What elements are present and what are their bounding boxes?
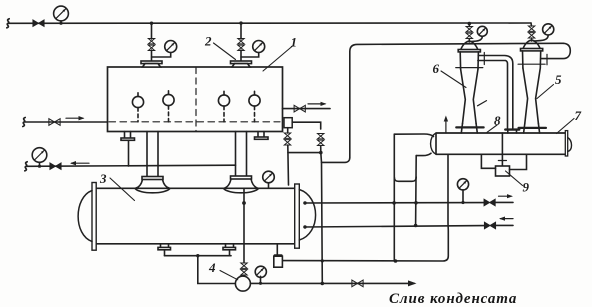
apparatus body 1 xyxy=(108,67,283,132)
wire: vent line with valve y=109 xyxy=(283,108,331,110)
wire: elbow x=448 cyl7 drain down to line C xyxy=(283,154,449,261)
ejector 6 body top section xyxy=(460,52,478,69)
wire: vertical Va x=394.3 from cyl7 inlet down to line C xyxy=(393,134,395,261)
wire: drop to valve ej6 xyxy=(468,24,470,27)
open valve on condensate line xyxy=(352,280,363,287)
flow arrow left above line B tail xyxy=(499,217,513,221)
bell right downcomer xyxy=(224,179,259,193)
wire: ejector suction line y=44 with elbow down xyxy=(350,43,564,157)
cap flange bar ej5 xyxy=(521,49,543,51)
dashed divider inside tank xyxy=(195,68,197,132)
valve above pump xyxy=(241,263,247,275)
wire: valve to flange xyxy=(151,50,153,61)
cylinder 3 body xyxy=(96,188,295,244)
wire: bridge y=181 xyxy=(394,177,416,181)
vent arrow up on cylinder 7 xyxy=(444,116,448,134)
gauge ej5 xyxy=(534,24,554,41)
pipe left downcomer xyxy=(147,132,158,177)
burner circle c xyxy=(218,91,229,122)
left dished head cylinder 3 xyxy=(78,191,92,242)
pointer line label 6 xyxy=(441,71,466,88)
svg-text:4: 4 xyxy=(208,260,216,275)
bolt dot lower on head xyxy=(303,225,306,228)
support stub left under cylinder 3 xyxy=(158,244,171,256)
node: long vertical joins bottom line xyxy=(321,282,325,286)
wire: inlet pipe y=134 xyxy=(394,134,433,137)
wire: valve down to cylinder head xyxy=(287,145,290,185)
node on drain header xyxy=(196,254,199,257)
wire: line A y=202.8 xyxy=(304,202,484,204)
ejector 5 cone and diffuser xyxy=(523,68,540,124)
right dished head cylinder 7 xyxy=(568,138,572,152)
small tick mark near ejector 6 foot xyxy=(478,101,487,106)
valve vertical ej5 xyxy=(528,26,534,38)
svg-text:2: 2 xyxy=(204,34,212,49)
wire: x=320.7 valve down, long vertical to bottom line xyxy=(321,146,323,284)
cap dome ej5 xyxy=(523,40,540,48)
wire: line B tail xyxy=(496,224,514,226)
pointer line label 5 xyxy=(537,85,554,99)
open valve on line 2 xyxy=(49,119,60,126)
flange bar left nozzle xyxy=(141,61,162,64)
wire: vertical Vb x=416.2 xyxy=(415,156,418,226)
flange tick on side pipe ej6 xyxy=(483,53,485,65)
svg-text:Слив конденсата: Слив конденсата xyxy=(389,291,517,307)
right dished head cylinder 3 xyxy=(299,190,315,241)
cap flange bar ej6 xyxy=(458,50,480,52)
wire: line B y=226 xyxy=(304,226,484,227)
burner circle d xyxy=(249,91,260,122)
flow arrow right on line 2 xyxy=(66,116,85,120)
pointer line label 4 xyxy=(220,271,238,280)
wire: cross link y=152.6 xyxy=(288,152,321,154)
bell left downcomer xyxy=(135,180,170,193)
ejector 5 body top section xyxy=(523,51,541,68)
svg-text:9: 9 xyxy=(523,180,530,195)
steam trap 9 under cylinder 7 xyxy=(496,154,510,176)
valve vertical on x=287.5 xyxy=(284,133,290,145)
pointer line label 3 xyxy=(110,178,135,201)
wire: valve to flange xyxy=(240,50,242,61)
wire: valve to pump xyxy=(243,275,245,276)
gauge after pump xyxy=(255,266,266,285)
flange tick ej5 xyxy=(518,63,545,65)
break mark left end of top line xyxy=(7,19,9,28)
node: line C crosses long vertical xyxy=(321,259,324,262)
dip pipe inside cylinder 3 with node xyxy=(242,188,246,262)
right flange bar cylinder 3 xyxy=(295,184,300,248)
pointer line label 8 xyxy=(487,125,497,132)
arrowhead condensate line xyxy=(408,280,417,286)
node: junction on top line xyxy=(150,22,153,25)
pump 4 xyxy=(235,276,250,291)
side outlet pipe ej6 xyxy=(478,56,513,129)
node: junction on top line xyxy=(239,21,242,24)
wire: condensate discharge line xyxy=(250,282,414,284)
valve vertical on x=320.7 xyxy=(318,134,324,146)
gauge on line 3 xyxy=(32,148,47,168)
flow arrow left on line 3 xyxy=(70,161,89,165)
cylinder 7 body xyxy=(436,133,565,154)
node: junction top line ejector 6 xyxy=(468,22,472,26)
ejector 6 cone and diffuser xyxy=(461,69,478,124)
valve (vertical) on left nozzle xyxy=(148,39,154,51)
wire: header drop to pump line xyxy=(198,256,236,284)
dashed level line inside tank xyxy=(109,121,280,123)
wire: drain header under cylinder 3 xyxy=(165,255,232,257)
suction elbow into ej5 (D shape) xyxy=(541,43,571,58)
wire: drop to valve xyxy=(151,23,153,39)
left flange bar cylinder 3 xyxy=(92,183,96,251)
wire: line y=122.3 to corner xyxy=(292,122,321,129)
ejector 6 foot xyxy=(456,124,483,134)
open valve on vent line xyxy=(294,105,305,112)
flange bar left downcomer xyxy=(142,177,163,180)
stub nozzle under tank right xyxy=(255,132,269,140)
fitting box on tank right edge xyxy=(284,118,292,128)
svg-text:6: 6 xyxy=(433,61,440,76)
gauge on left nozzle xyxy=(152,41,177,58)
nozzle trapezoid right xyxy=(232,64,250,67)
burner circle b xyxy=(163,91,174,122)
wire: third supply line y=166 xyxy=(26,165,236,166)
node Va on line C xyxy=(394,259,398,263)
foot bar of down pipe on cylinder 7 xyxy=(505,130,519,133)
gauge ej6 xyxy=(471,26,487,41)
flange tick ej6 xyxy=(456,67,483,69)
wire: loop-seal jog into bell bottom xyxy=(416,153,431,155)
drain trap under cylinder 3 right end xyxy=(274,244,283,267)
burner circle a xyxy=(132,93,143,122)
bolt dot upper on head xyxy=(303,201,306,204)
wire: valve to cap ej5 xyxy=(531,38,533,41)
valve on top line xyxy=(33,20,44,27)
pointer line label 1 xyxy=(263,46,293,71)
wire: link y=162.4 from x=349.8 xyxy=(322,158,350,163)
node Vb on line B xyxy=(414,224,418,228)
wire: line A tail xyxy=(495,201,513,203)
wire: valve to cap ej6 xyxy=(468,39,470,43)
node y=152.6 xyxy=(319,151,323,155)
valve vertical ej6 xyxy=(466,27,472,39)
wire: top line corner into ej5 valve xyxy=(530,23,533,26)
wire: bypass loop right under cylinder 7 xyxy=(510,154,527,169)
support stub right under cylinder 3 xyxy=(223,244,236,256)
pointer line label 9 xyxy=(506,171,523,186)
filled valve on line A xyxy=(484,199,495,206)
wire: drop from fitting to valve x=289.5 xyxy=(287,128,289,133)
ejector 5 foot xyxy=(519,124,546,134)
gauge on cylinder 3 xyxy=(263,171,275,188)
svg-text:3: 3 xyxy=(99,171,107,186)
divider line in cylinder 7 xyxy=(501,133,503,154)
filled valve on line 3 xyxy=(50,163,61,170)
pointer line label 2 xyxy=(214,43,236,60)
wire: second supply line y=122 xyxy=(24,121,108,123)
flange tick on ej5 inlet pipe xyxy=(546,54,548,65)
flow arrow right above vent line xyxy=(308,102,327,106)
gauge on right nozzle xyxy=(241,41,265,58)
svg-text:5: 5 xyxy=(555,72,562,87)
wire: main steam supply line (top) xyxy=(8,22,531,24)
wire: drop to valve xyxy=(240,23,242,39)
filled valve on line B xyxy=(484,222,495,229)
node Vb on line A xyxy=(414,201,418,205)
wire: bypass loop left under cylinder 7 xyxy=(481,154,495,168)
right flange bar cylinder 7 xyxy=(565,131,567,156)
break mark xyxy=(25,162,27,171)
gauge on top line xyxy=(54,6,69,25)
stub nozzle under tank left xyxy=(121,132,135,167)
nozzle trapezoid left xyxy=(143,64,161,67)
valve (vertical) on right nozzle xyxy=(238,39,244,51)
cap dome ej6 xyxy=(461,41,478,49)
svg-text:7: 7 xyxy=(575,108,582,123)
pipe right downcomer xyxy=(236,132,247,177)
gauge near cylinder 7 drain xyxy=(457,179,468,204)
pointer line label 7 xyxy=(557,119,575,134)
flange bar right downcomer xyxy=(231,176,252,179)
node Va on line A xyxy=(392,201,396,205)
break mark xyxy=(23,118,25,127)
left bell head cylinder 7 xyxy=(431,133,436,154)
flange bar right nozzle xyxy=(231,61,252,64)
flow arrow right above line A tail xyxy=(499,194,514,198)
